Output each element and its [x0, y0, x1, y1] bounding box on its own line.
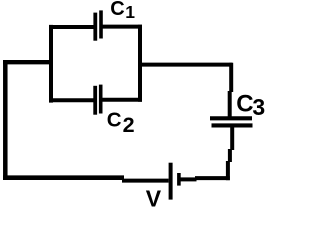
capacitor C3: [210, 118, 253, 125]
wire right vertical lower jog: [228, 149, 232, 162]
capacitor C1: [95, 10, 101, 40]
svg-text:2: 2: [123, 113, 135, 137]
wire top branch right segment: [101, 25, 142, 29]
wire bottom right horizontal jog: [181, 177, 197, 181]
wire right vertical upper: [229, 63, 233, 92]
svg-text:C: C: [110, 0, 124, 20]
wire right vertical lower: [230, 126, 234, 150]
capacitor C2: [95, 85, 101, 115]
svg-text:C: C: [107, 109, 122, 132]
wire middle horizontal: [138, 63, 233, 67]
svg-text:C: C: [236, 91, 253, 118]
wire bottom branch right segment: [100, 98, 142, 102]
label C2: [107, 109, 135, 138]
battery V short plate: [177, 173, 181, 186]
battery V long plate: [169, 163, 173, 200]
label C1: [110, 0, 135, 22]
wire parallel-section right vertical: [138, 25, 142, 102]
wire bottom left horizontal jog: [122, 179, 169, 183]
svg-text:V: V: [146, 186, 162, 209]
wire parallel-section left vertical: [49, 25, 53, 103]
wire right vertical upper jog: [228, 91, 232, 118]
label C3: [236, 91, 265, 120]
wire right vertical lower jog 2: [226, 161, 230, 180]
wire bottom branch left segment: [49, 98, 96, 102]
svg-text:3: 3: [252, 94, 265, 120]
wire top branch left segment: [49, 25, 96, 29]
wire left horizontal connector: [3, 60, 53, 64]
svg-text:1: 1: [125, 2, 135, 22]
wire outer left vertical: [3, 60, 8, 179]
wire bottom right horizontal: [195, 176, 230, 180]
wire bottom left horizontal: [3, 175, 124, 180]
